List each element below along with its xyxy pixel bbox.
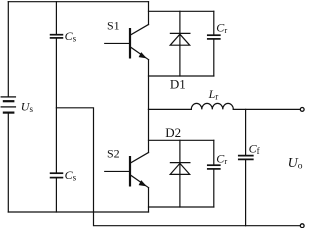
wire S1 emitter down to node xyxy=(148,60,150,110)
D1 snubber box top xyxy=(149,10,214,12)
wire between capacitors xyxy=(55,39,57,173)
svg-text:Us: Us xyxy=(21,100,34,115)
svg-text:Cs: Cs xyxy=(65,168,77,183)
svg-text:Cr: Cr xyxy=(216,151,227,166)
transistor S1 xyxy=(105,25,149,60)
diode D2 xyxy=(170,140,190,207)
svg-text:S1: S1 xyxy=(107,19,120,33)
wire Cs branch vertical xyxy=(55,2,57,34)
wire inductor to output top xyxy=(233,108,300,110)
wire top rail xyxy=(8,1,148,3)
wire S2 emitter down xyxy=(148,188,150,212)
svg-text:Cr: Cr xyxy=(216,21,227,36)
svg-text:D2: D2 xyxy=(165,125,181,140)
wire left vertical to battery xyxy=(7,2,9,97)
D1 snubber box bottom xyxy=(149,75,214,77)
wire S1 collector up xyxy=(148,2,150,25)
wire midpoint node to return xyxy=(56,108,300,226)
capacitor Cs top xyxy=(51,35,63,38)
diode D1 xyxy=(170,11,190,76)
wire node to inductor xyxy=(149,108,192,110)
battery Us xyxy=(1,97,15,113)
wire node to S2 collector xyxy=(148,109,150,152)
svg-text:Uo: Uo xyxy=(288,156,303,172)
capacitor Cr bottom xyxy=(208,140,220,207)
capacitor Cr top xyxy=(208,11,220,76)
terminal top output xyxy=(300,108,304,112)
capacitor Cf xyxy=(239,109,253,225)
transistor S2 xyxy=(105,153,149,188)
D2 snubber box top xyxy=(149,139,214,141)
terminal bottom output xyxy=(300,224,304,228)
svg-text:D1: D1 xyxy=(170,77,186,92)
D2 snubber box bottom xyxy=(149,206,214,208)
svg-text:Lr: Lr xyxy=(208,87,219,102)
svg-text:Cs: Cs xyxy=(65,29,77,44)
svg-text:Cf: Cf xyxy=(249,141,260,156)
inductor Lr xyxy=(191,103,233,109)
wire battery negative down xyxy=(7,114,9,212)
wire Cs bottom to rail xyxy=(55,179,57,213)
svg-text:S2: S2 xyxy=(107,147,120,161)
capacitor Cs bottom xyxy=(51,173,63,177)
wire bottom rail xyxy=(8,211,148,213)
